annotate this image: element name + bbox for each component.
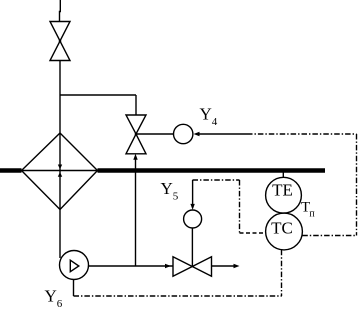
signal line: bottom horizontal dash-dot — [74, 295, 282, 297]
wire: vertical diagonal through E1 — [59, 133, 61, 210]
svg-text:TE: TE — [272, 181, 293, 200]
signal line: TC right to corner — [302, 235, 356, 237]
valve V1 — [50, 22, 70, 61]
wire: branch down to V2 — [135, 95, 137, 115]
wire: V2 to actuator Y4 — [136, 133, 174, 135]
pipe: thick line left segment — [0, 168, 22, 173]
arrow into valve V3 — [165, 264, 171, 268]
arrow up into V2 — [133, 154, 137, 160]
wire: solid part of Y4 signal — [199, 133, 247, 135]
arrow at V3 outlet — [234, 264, 240, 268]
svg-text:Y6: Y6 — [45, 287, 63, 311]
signal line: dash-dot to right edge — [247, 133, 357, 135]
arrow into Y4 — [194, 132, 200, 136]
signal line: Y5 horizontal dash-dot — [193, 179, 240, 181]
wire: E1 to pump — [59, 210, 61, 259]
signal line: Y5 vertical dash-dot — [239, 180, 241, 233]
wire: top inlet line — [59, 0, 62, 22]
valve V3 — [173, 257, 212, 276]
controller TC circle — [266, 213, 303, 250]
arrow down at E1 center — [58, 165, 62, 170]
svg-text:Y4: Y4 — [200, 105, 218, 129]
signal line: TC bottom vertical dash-dot — [281, 250, 283, 296]
signal line: to TC left — [240, 232, 266, 234]
pipe: thin line through E1 — [22, 170, 98, 172]
wire: riser from pump line to V2 — [135, 159, 137, 266]
wire: branch to V2 horizontal — [60, 94, 136, 96]
pump N1 — [60, 251, 89, 280]
heat exchanger E1 diamond — [22, 133, 98, 210]
valve V2 — [126, 115, 146, 154]
wire: pump bottom stem — [73, 280, 75, 297]
pipe: pump outlet — [89, 265, 174, 267]
arrow up at E1 center — [58, 172, 62, 177]
instrument TE circle — [266, 177, 302, 213]
wire: V1 to heat exchanger — [59, 61, 61, 134]
actuator Y5 circle — [184, 210, 202, 228]
pipe: thick line right segment — [98, 168, 326, 173]
wire: V3 stem to actuator Y5 — [191, 228, 193, 267]
actuator Y4 circle — [174, 124, 193, 143]
pipe: V3 outlet — [212, 265, 234, 267]
svg-text:Tп: Tп — [301, 199, 315, 219]
svg-text:Y5: Y5 — [161, 179, 179, 203]
arrow into Y5 — [190, 204, 194, 210]
wire: tick from pipe to TE — [282, 173, 284, 178]
signal line: right vertical dash-dot — [356, 134, 358, 236]
wire: Y5 stem upper — [192, 180, 194, 205]
svg-text:TC: TC — [271, 219, 293, 238]
